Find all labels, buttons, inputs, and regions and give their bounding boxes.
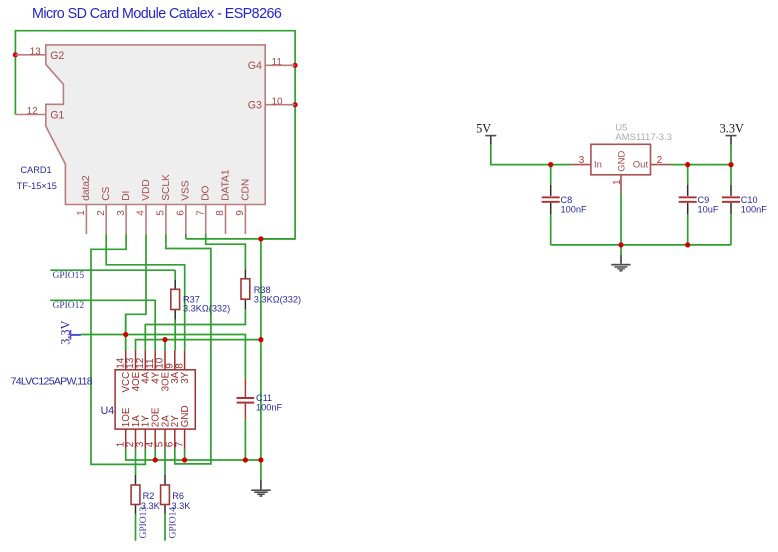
svg-text:SCLK: SCLK bbox=[161, 174, 172, 201]
svg-text:DO: DO bbox=[201, 185, 212, 200]
svg-text:R38: R38 bbox=[254, 285, 271, 295]
svg-text:100nF: 100nF bbox=[741, 205, 767, 215]
svg-text:3: 3 bbox=[116, 210, 127, 216]
svg-text:5V: 5V bbox=[476, 121, 491, 135]
svg-text:3.3V: 3.3V bbox=[720, 121, 744, 135]
svg-text:8: 8 bbox=[174, 363, 185, 369]
svg-text:U4: U4 bbox=[101, 405, 115, 417]
svg-text:C9: C9 bbox=[698, 195, 710, 205]
svg-text:100nF: 100nF bbox=[256, 402, 282, 412]
svg-text:G4: G4 bbox=[248, 60, 262, 72]
svg-text:5: 5 bbox=[156, 210, 167, 216]
svg-text:9: 9 bbox=[235, 210, 246, 216]
svg-text:DATA1: DATA1 bbox=[220, 169, 231, 201]
svg-text:G3: G3 bbox=[248, 100, 262, 112]
svg-text:7: 7 bbox=[174, 441, 185, 447]
svg-text:CDN: CDN bbox=[240, 179, 251, 201]
svg-text:6: 6 bbox=[176, 210, 187, 216]
svg-text:In: In bbox=[594, 160, 602, 171]
svg-text:VDD: VDD bbox=[141, 179, 152, 201]
svg-text:GPIO12: GPIO12 bbox=[53, 301, 85, 311]
svg-text:4: 4 bbox=[136, 210, 147, 216]
svg-text:G2: G2 bbox=[50, 50, 64, 62]
svg-text:data2: data2 bbox=[81, 175, 92, 201]
svg-text:12: 12 bbox=[27, 106, 39, 117]
svg-text:GND: GND bbox=[180, 405, 191, 427]
svg-text:C10: C10 bbox=[741, 195, 758, 205]
svg-text:2: 2 bbox=[657, 155, 663, 166]
svg-text:CS: CS bbox=[101, 186, 112, 200]
svg-text:Micro SD Card Module Catalex -: Micro SD Card Module Catalex - ESP8266 bbox=[32, 6, 282, 22]
svg-text:3.3KΩ(332): 3.3KΩ(332) bbox=[254, 295, 301, 305]
svg-text:DI: DI bbox=[121, 191, 132, 201]
svg-text:R2: R2 bbox=[143, 491, 155, 501]
svg-text:3.3KΩ(332): 3.3KΩ(332) bbox=[183, 304, 230, 314]
svg-text:2: 2 bbox=[96, 210, 107, 216]
svg-text:AMS1117-3.3: AMS1117-3.3 bbox=[615, 132, 672, 143]
svg-text:G1: G1 bbox=[50, 110, 64, 122]
svg-text:GPIO15: GPIO15 bbox=[53, 271, 85, 281]
svg-text:8: 8 bbox=[215, 210, 226, 216]
svg-text:11: 11 bbox=[272, 57, 283, 68]
svg-text:GPIO13: GPIO13 bbox=[139, 507, 149, 539]
svg-text:C8: C8 bbox=[561, 195, 573, 205]
svg-text:74LVC125APW,118: 74LVC125APW,118 bbox=[11, 375, 93, 387]
svg-text:3: 3 bbox=[579, 155, 585, 166]
svg-text:Out: Out bbox=[633, 160, 649, 171]
svg-text:R6: R6 bbox=[172, 491, 184, 501]
svg-text:VSS: VSS bbox=[181, 180, 192, 201]
svg-text:GPIO14: GPIO14 bbox=[168, 507, 178, 539]
svg-text:13: 13 bbox=[30, 46, 42, 57]
svg-text:100nF: 100nF bbox=[561, 205, 587, 215]
svg-text:TF-15×15: TF-15×15 bbox=[17, 181, 57, 191]
svg-text:1: 1 bbox=[76, 210, 87, 216]
svg-text:GND: GND bbox=[617, 151, 628, 172]
svg-text:3.3V: 3.3V bbox=[58, 320, 72, 344]
svg-text:CARD1: CARD1 bbox=[21, 165, 52, 175]
svg-text:7: 7 bbox=[195, 210, 206, 216]
svg-text:10: 10 bbox=[272, 96, 284, 107]
svg-text:10uF: 10uF bbox=[698, 205, 719, 215]
svg-text:1: 1 bbox=[612, 179, 623, 185]
svg-text:3Y: 3Y bbox=[180, 371, 191, 383]
